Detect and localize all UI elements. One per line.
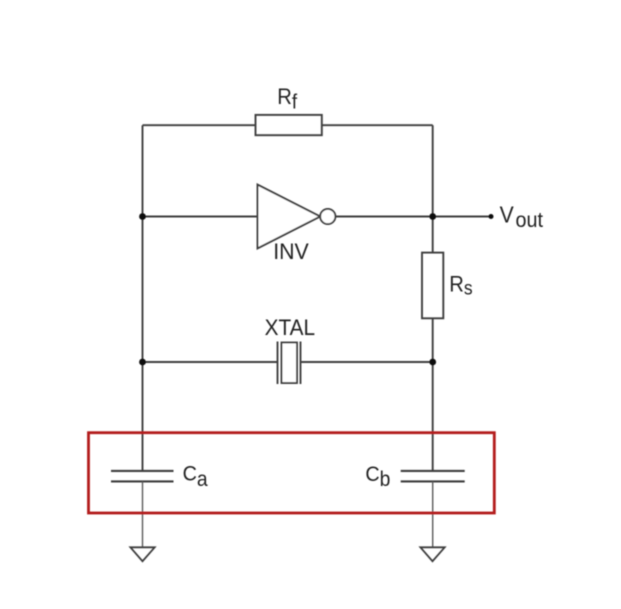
highlight box around Ca and Cb [89,433,495,513]
node junction xtal right [429,359,436,366]
wire right vertical lower [432,318,434,470]
wire xtal left [143,361,278,363]
wire top right horizontal [322,124,433,126]
wire inverter output [336,216,433,218]
capacitor Cb bottom plate [401,480,465,482]
ground left [130,547,154,561]
wire xtal right [301,361,433,363]
wire top left horizontal [143,124,256,126]
wire Ca to ground [142,481,144,547]
capacitor Ca bottom plate [111,480,174,482]
wire right vertical upper [432,125,434,252]
node junction xtal left [139,359,146,366]
svg-text:INV: INV [273,239,309,264]
ground right [420,547,444,561]
wire Cb to ground [432,481,434,547]
node junction at inverter output [429,213,436,220]
svg-text:XTAL: XTAL [265,315,316,340]
op-amp inverter U1 bubble [320,209,335,224]
resistor R_s [422,253,443,319]
op-amp inverter U1 triangle [258,185,321,249]
wire inverter input [143,216,258,218]
crystal XTAL right plate [300,342,302,385]
wire left vertical [142,125,144,470]
resistor R_f [256,115,322,135]
crystal XTAL left plate [277,342,279,385]
node junction at inverter input [139,213,146,220]
crystal XTAL body [282,343,298,384]
capacitor Cb top plate [401,470,465,472]
wire Vout stub [433,216,491,218]
node Vout terminal dot [489,214,494,219]
capacitor Ca top plate [111,470,174,472]
svg-text:Rs: Rs [449,273,472,299]
